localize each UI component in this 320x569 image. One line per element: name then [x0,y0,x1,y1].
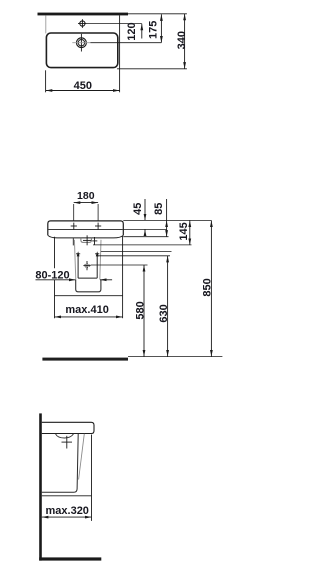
wall line (side view) [39,413,42,560]
leader L1 rim top [123,219,211,221]
leader L5 fixing holes [101,250,172,252]
left extension line (below basin, 450) [45,70,47,92]
svg-text:max.410: max.410 [65,304,108,316]
svg-text:580: 580 [134,301,146,319]
floor thick line (front view) [42,358,128,361]
short vertical mark left [72,238,74,245]
svg-text:max.320: max.320 [46,505,89,517]
semi-pedestal side left (gray) [74,240,75,280]
pedestal outer slant (side, gray) [79,434,85,480]
floor extension thin line [128,356,222,358]
dimension 45 line [144,199,146,220]
dimension 450 line [46,90,120,92]
drain pipe cross (front) [83,261,90,270]
tap hole cross left [71,223,77,230]
180 extension lines [73,204,75,221]
svg-text:120: 120 [126,22,138,40]
svg-text:180: 180 [77,190,95,202]
overflow cross [83,235,91,245]
dimension 175 line [160,14,162,42]
tap hole cross right [95,223,101,230]
drain symbol [72,34,90,52]
recess bottom edge [78,277,97,279]
furniture envelope left line [54,237,56,268]
svg-text:850: 850 [202,278,214,296]
tap hole symbol [78,19,87,28]
dimension 80-120 right segment [100,279,112,281]
dimension 180 line [74,202,98,204]
rim profile (side) [42,422,94,433]
basin outline (front) [48,221,124,235]
right edge / extension line [119,15,121,92]
dimension 850 line [210,221,212,357]
pedestal front edge (side, dark) [42,434,78,493]
dimension 145 line [189,221,191,245]
tap cross (side) [62,436,73,449]
leader L6 [97,255,170,257]
envelope right vertical (side) [91,435,93,521]
rim bottom edge line [48,229,123,231]
top extension line to 340 [128,13,187,15]
basin underside [48,235,124,238]
dimension 85 line [166,199,168,221]
bottom extension line to 340 [117,68,187,70]
svg-text:145: 145 [178,222,190,240]
dimension 120 line [141,24,143,39]
dimension 80-120 left segment [36,279,76,281]
fixing cross right of overflow [92,237,97,245]
dimension max.320 line [42,516,92,518]
leader L2 rim bottom [123,228,166,230]
drain leader line [90,42,161,44]
wall bar (top view) [38,13,129,16]
recess vertical right with fixing arrow [96,253,98,278]
svg-text:340: 340 [176,31,188,49]
dimension 340 line [184,14,186,69]
leader L7 drain [91,264,148,266]
furniture envelope bottom [55,295,123,297]
recess vertical left with fixing arrow [77,253,79,278]
envelope bottom (side) [42,495,92,497]
svg-text:85: 85 [153,203,165,215]
basin outline (plan, rounded rect) [46,33,117,68]
leader L4 overflow bottom [93,244,192,246]
svg-text:450: 450 [74,80,92,92]
bowl lip arc (side) [56,434,74,438]
svg-text:630: 630 [158,304,170,322]
leader L3 underside [123,236,168,238]
dimension max.410 line [55,316,123,318]
svg-text:175: 175 [148,21,160,39]
dimension 580 line [143,265,145,357]
svg-text:45: 45 [132,203,144,215]
tap hole leader line [87,23,142,25]
pedestal bottom [76,280,101,292]
dimension 630 line [167,256,169,357]
overflow tab [81,238,92,243]
furniture envelope right line [122,236,124,319]
left extension line gray (above basin) [45,15,47,33]
semi-pedestal side right (gray) [100,240,101,280]
floor line (side view) [39,557,101,560]
